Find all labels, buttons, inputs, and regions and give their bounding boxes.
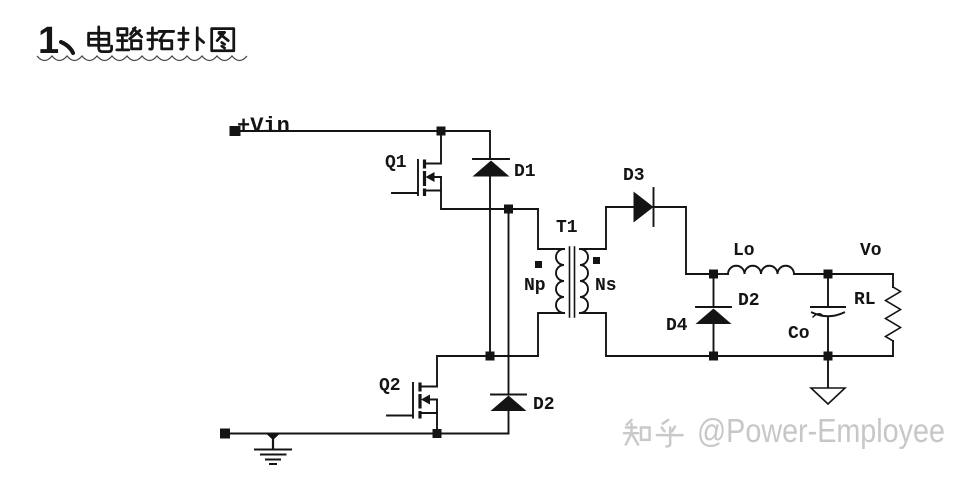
diode D3 (output rectifier): [606, 188, 709, 274]
svg-text:Np: Np: [524, 276, 546, 296]
wire Q2 source to ground rail: [436, 400, 438, 434]
transistor Q1: [392, 160, 441, 197]
svg-text:T1: T1: [556, 218, 578, 238]
node D4 bottom junction: [709, 352, 718, 361]
node ground left terminal: [220, 429, 230, 439]
wire Q2 drain to node B rail: [437, 356, 538, 387]
node Vo junction: [824, 270, 833, 279]
diode D1 (clamp, anode bottom at node B, cathode to +Vin rail): [473, 159, 510, 356]
svg-text:1: 1: [38, 20, 59, 62]
svg-text:@Power-Employee: @Power-Employee: [697, 412, 945, 449]
primary winding Np: [556, 249, 564, 313]
svg-text:D1: D1: [514, 162, 536, 182]
wire Q1 drain: [426, 131, 441, 164]
wire RL bottom to output rail: [606, 341, 893, 356]
node freewheel (D4 top): [709, 270, 718, 279]
svg-text:D3: D3: [623, 166, 645, 186]
watermark 知乎 @Power-Employee: [624, 420, 683, 447]
wire top rail +Vin: [235, 131, 490, 159]
core: [570, 247, 575, 317]
diode D4 (freewheel): [696, 274, 732, 356]
知: [624, 420, 650, 445]
svg-text:Lo: Lo: [733, 241, 755, 261]
拓: [148, 28, 174, 49]
inductor Lo: [718, 266, 823, 274]
node Q1 drain junction: [437, 127, 446, 136]
svg-text:Co: Co: [788, 324, 810, 344]
svg-text:RL: RL: [854, 290, 876, 310]
svg-text:D4: D4: [666, 316, 688, 336]
node Co bottom junction: [824, 352, 833, 361]
capacitor Co: [811, 278, 845, 352]
resistor RL: [886, 287, 901, 341]
wire Q1 source to node A: [441, 177, 538, 209]
ground (earth symbol): [255, 434, 291, 464]
wire secondary bottom lead: [580, 313, 606, 356]
电: [89, 27, 112, 52]
乎: [657, 420, 683, 447]
wire Vo to RL: [832, 274, 893, 287]
路: [117, 28, 142, 50]
polarity dot secondary: [593, 257, 600, 264]
扑: [179, 28, 204, 50]
svg-text:Ns: Ns: [595, 276, 617, 296]
transistor Q2: [387, 383, 437, 419]
svg-text:Q1: Q1: [385, 153, 407, 173]
transformer T1: [535, 207, 606, 356]
node B junction: [486, 352, 495, 361]
node +Vin terminal: [230, 126, 241, 136]
svg-text:Vo: Vo: [860, 241, 882, 261]
title "1、电路拓扑图": [38, 20, 234, 62]
wire primary bottom to node B: [538, 313, 564, 356]
svg-text:D2: D2: [738, 291, 760, 311]
node Q2 source junction: [433, 429, 442, 438]
ground (output, arrow style): [811, 360, 845, 404]
wire secondary top lead: [580, 207, 606, 249]
diode D2 (clamp, anode at ground rail, cathode to node A): [491, 209, 527, 434]
secondary winding Ns: [580, 249, 588, 313]
svg-text:D2: D2: [533, 395, 555, 415]
、 ideographic comma: [61, 42, 73, 53]
node A junction: [504, 205, 513, 214]
svg-text:+Vin: +Vin: [237, 114, 290, 139]
svg-text:Q2: Q2: [379, 376, 401, 396]
图: [212, 29, 234, 51]
wire node A to primary top: [538, 209, 564, 249]
polarity dot primary: [535, 261, 542, 268]
ground rail: [225, 433, 509, 435]
